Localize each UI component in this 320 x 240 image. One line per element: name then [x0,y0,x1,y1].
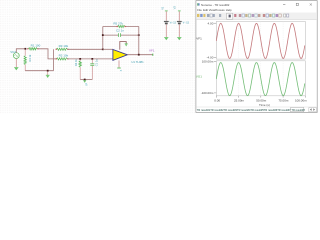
svg-text:-100.00m: -100.00m [201,91,214,95]
toolbar icons [197,13,289,19]
battery V2 [177,21,182,24]
scope window frame [196,1,317,113]
pin dot R3 left [56,49,57,50]
wire R1 to lower bus [38,49,56,59]
svg-text:R2 10k: R2 10k [59,53,69,57]
wire node A down to R4 [24,50,26,56]
svg-text:75.00m: 75.00m [278,99,289,103]
ground VG1 [14,68,18,71]
junction bus / R6 [79,58,81,60]
pin dot R1 left [27,48,28,49]
output junction [138,54,140,56]
scope menu bar [197,8,232,12]
svg-text:R3 10k: R3 10k [59,44,69,48]
wire R6 bottom [79,67,81,79]
svg-text:U1 TL081: U1 TL081 [131,60,144,64]
pin dot R1 right [37,48,38,49]
supply V1 wire top [165,11,167,20]
x axis labels [214,99,307,103]
svg-text:TR result#3: TR result#3 [224,108,238,112]
svg-text:R1 100: R1 100 [31,44,41,48]
capacitor C2 [119,33,121,37]
gridlines top plot [239,21,284,59]
voltage source VG1 [13,53,19,59]
feedback top wire [103,26,139,28]
supply V2 wire bottom [178,25,180,38]
battery V1 [164,21,169,24]
capacitor C1 (vertical) [90,64,94,66]
svg-text:TR result#1: TR result#1 [197,108,211,112]
svg-text:Process: Process [215,8,226,12]
svg-text:R5 27k: R5 27k [113,22,123,26]
y axis ticks top plot [214,23,216,57]
ground at V- pin [117,67,121,69]
scope title icon [197,3,199,5]
node A junction [25,48,27,50]
svg-text:V2: V2 [173,5,177,9]
svg-text:R4 1k: R4 1k [74,59,78,66]
plot area top frame (VF1) [216,21,305,59]
resistor R4 (vertical 1k) [24,56,26,65]
svg-text:VG1: VG1 [196,74,202,78]
node B junction [102,48,104,50]
svg-text:File: File [197,8,202,12]
supply V2 top terminal [178,10,181,12]
scope close button [310,3,312,5]
svg-text:Edit: Edit [203,8,208,12]
svg-text:Time (s): Time (s) [259,103,270,107]
wire bus to C1 [91,60,93,64]
x axis ticks [216,96,305,98]
svg-text:C1 1u: C1 1u [94,59,98,66]
VG1 input sine curve (green) [216,63,304,96]
feedback middle wire to C2 [103,34,139,36]
supply V2 wire top [178,11,180,20]
ground at V+ pin [125,44,128,47]
resistor R1 [28,48,37,50]
svg-text:TR result#8: TR result#8 [291,108,305,112]
scope minimize button [283,4,285,6]
tab bar separator [196,106,316,108]
op-amp V+ pin wire [120,42,126,50]
feedback right wire down to output [138,27,140,55]
svg-text:Noname - TR result#2: Noname - TR result#2 [201,3,230,7]
wire bus to R6 [79,60,81,61]
op-amp V- pin wire [118,60,120,67]
pin dot R2 left [56,58,57,59]
wire R3 to node B [68,48,103,50]
wire C1 bottom [91,66,93,80]
svg-text:V+ 15: V+ 15 [170,22,177,25]
tab nav arrows [309,108,317,112]
svg-text:TR result#4: TR result#4 [237,108,251,112]
output wire [128,54,153,56]
svg-text:TR result#6: TR result#6 [264,108,278,112]
svg-text:C2 1n: C2 1n [116,29,124,33]
svg-text:V- -15: V- -15 [183,22,190,25]
junction C2 left [102,34,104,36]
feedback loop left wire [102,27,104,50]
ground rail bottom left [25,70,53,72]
pin dot R2 right [67,58,68,59]
junction on rail [84,79,86,81]
ground V1 [164,37,168,40]
voltage probe VF1 pin [152,54,154,56]
wire VG1 bottom to ground [15,59,17,68]
svg-text:100.00m: 100.00m [295,99,307,103]
svg-text:VG1: VG1 [10,50,16,54]
svg-text:4.00: 4.00 [208,21,214,25]
pin dot R3 right [67,49,68,50]
wire lower bus to op-amp [68,58,114,60]
supply V1 wire bottom [165,25,167,38]
svg-text:V1: V1 [161,6,165,10]
svg-text:Help: Help [226,8,232,12]
scope maximize button [296,3,298,5]
y axis ticks bottom plot [214,62,216,93]
pin dot R5 right [125,26,126,27]
ground rail under R6/C1 [80,79,92,81]
pin dot R5 left [117,26,118,27]
resistor R6 (vertical) [79,61,81,67]
gridlines bottom plot [239,61,284,96]
svg-text:VF1: VF1 [149,48,155,52]
ground branch wire (R3 left end to ground rail) [53,49,55,70]
svg-text:TR result#5: TR result#5 [250,108,264,112]
junction C2 right [138,34,140,36]
svg-text:TR result#7: TR result#7 [277,108,291,112]
op-amp U1 [113,50,128,61]
VF1 output sine curve (red) [216,23,304,58]
junction on ground rail [47,70,49,72]
svg-text:R4 1k: R4 1k [28,54,32,61]
svg-text:25.00m: 25.00m [234,99,245,103]
svg-text:TR result#2: TR result#2 [210,108,224,112]
resistor R2 [56,58,67,60]
resistor R3 [56,48,67,50]
ground symbol below rail [46,71,50,78]
active tab [291,107,306,112]
ground V2 [177,37,181,40]
junction bus / C1 [91,58,93,60]
ground symbol under rail [83,81,86,83]
wire VG1 top to node A [16,49,25,53]
scope toolbar [196,13,316,20]
plot area bottom frame (VG1) [216,61,305,96]
wire node B to op-amp minus input [103,48,113,50]
supply V1 top terminal [165,10,168,12]
svg-text:0.00: 0.00 [214,99,220,103]
svg-text:VF1: VF1 [196,36,202,40]
result tabs [197,108,291,112]
resistor R5 feedback [118,25,125,27]
wire R4 bottom to ground rail [24,65,26,71]
svg-text:100.00m: 100.00m [202,60,214,64]
